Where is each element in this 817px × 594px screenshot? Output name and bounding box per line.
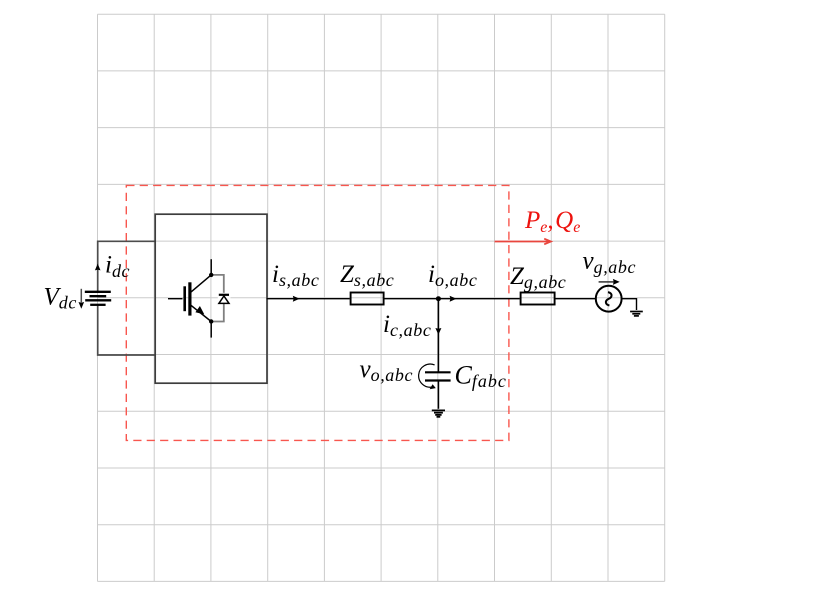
label v_o,abc — [360, 356, 414, 385]
wire: battery loop to inverter — [98, 241, 156, 355]
arrow: i_o,abc — [450, 296, 457, 302]
label i_dc — [105, 252, 130, 281]
svg-text:io,abc: io,abc — [428, 261, 477, 290]
wire: freewheel diode loop (gray) — [211, 275, 224, 322]
arrow: i_dc current direction — [95, 264, 101, 271]
wire: node down to capacitor — [437, 299, 439, 372]
diode D1 — [218, 293, 231, 304]
label v_g,abc — [583, 248, 637, 277]
svg-text:vo,abc: vo,abc — [360, 356, 414, 385]
svg-text:vg,abc: vg,abc — [583, 248, 637, 277]
AC source v_g (grid) — [596, 286, 622, 312]
ground (below C_fabc) — [432, 410, 445, 416]
label V_dc — [44, 284, 77, 313]
label Z_s,abc — [340, 261, 394, 290]
wire: Z_g to grid source — [556, 298, 596, 300]
arrow arc: v_o,abc polarity — [419, 364, 435, 387]
arrow: i_c,abc (down) — [435, 328, 441, 335]
label i_o,abc — [428, 261, 477, 290]
node i_o junction dot — [436, 296, 441, 301]
label C_fabc — [455, 361, 507, 392]
svg-text:Pe,Qe: Pe,Qe — [524, 207, 580, 236]
label i_c,abc — [383, 311, 431, 340]
label P_e,Q_e (red) — [524, 207, 580, 236]
inverter U1 (box) — [155, 214, 267, 383]
wire: node to Z_g — [438, 298, 519, 300]
svg-text:Zs,abc: Zs,abc — [340, 261, 394, 290]
transistor Q1 (IGBT) — [168, 259, 211, 337]
converter boundary (red dashed box) — [126, 185, 509, 440]
wire: source to ground — [622, 299, 637, 310]
junction dot bottom of Q1 — [209, 319, 213, 323]
sine squiggle inside source — [606, 292, 612, 305]
battery V_dc (DC source) — [85, 292, 111, 305]
impedance Z_g,abc (box) — [521, 293, 555, 305]
arrow: emitter of Q1 — [195, 306, 204, 314]
label i_s,abc — [272, 261, 319, 290]
wire: Z_s to node — [384, 298, 438, 300]
arrow: V_dc voltage direction (down) — [80, 289, 82, 303]
arrow: v_g,abc direction — [599, 281, 614, 283]
svg-text:ic,abc: ic,abc — [383, 311, 431, 340]
label Z_g,abc — [510, 263, 566, 292]
svg-text:Cfabc: Cfabc — [455, 361, 507, 392]
svg-text:is,abc: is,abc — [272, 261, 319, 290]
ground (grid side) — [630, 312, 643, 316]
arrow: P_e,Q_e power flow (red) — [495, 239, 551, 245]
wire: inverter output to Z_s — [267, 298, 350, 300]
capacitor C_fabc — [425, 372, 451, 380]
impedance Z_s,abc (box) — [351, 293, 384, 305]
svg-text:Zg,abc: Zg,abc — [510, 263, 566, 292]
arrow: i_s,abc — [293, 296, 300, 302]
junction dot top of Q1 — [209, 273, 213, 277]
wire: capacitor to ground — [437, 381, 439, 409]
svg-text:Vdc: Vdc — [44, 284, 77, 313]
svg-text:idc: idc — [105, 252, 130, 281]
